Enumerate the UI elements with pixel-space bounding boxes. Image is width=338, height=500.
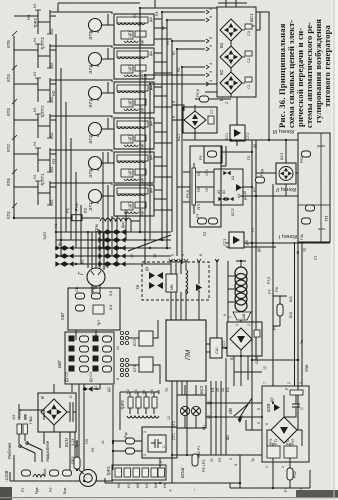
winding Рдв: [33, 475, 45, 478]
bridge В8: [271, 417, 297, 443]
wires БГ links: [129, 320, 160, 384]
wire vertical x256: [255, 140, 257, 360]
wire bus x140: [140, 8, 217, 232]
vertical riser wires from contacts to diode band: [56, 34, 81, 264]
exciter В circle: [80, 470, 97, 487]
wire vertical x273: [272, 184, 274, 386]
diode pairs on band: [55, 229, 125, 266]
bridge B3: [220, 19, 242, 41]
stabilitron СТ2: [180, 406, 189, 415]
wire vertical x237: [221, 146, 226, 166]
resistor top: [290, 390, 303, 395]
wire bus x145: [145, 75, 205, 264]
coil row under ТрР2: [127, 416, 159, 418]
winding Dtm: [100, 218, 131, 221]
diode pair А2 А3: [218, 197, 225, 201]
wire vertical x298: [297, 133, 299, 430]
wire bus x177: [177, 49, 205, 256]
wires БА internal: [177, 152, 252, 214]
fuse Всв: [63, 470, 72, 476]
wire riser x66: [65, 102, 67, 232]
bridge B1: [220, 72, 242, 94]
capacitor C1: [245, 77, 252, 82]
diode А13: [196, 284, 202, 291]
resistor P2 near x256: [256, 177, 265, 183]
chevron terminals at BS1 inputs: [206, 10, 209, 86]
resistor Р9 top: [208, 151, 217, 157]
wires БСЗ: [185, 385, 262, 428]
capacitor С: [67, 402, 76, 422]
wire БСТ feeds: [172, 99, 231, 140]
diode pair Д5: [149, 272, 155, 289]
wires ТрР2: [113, 385, 159, 470]
wires coil taps: [228, 261, 246, 322]
block БСТ outline: [183, 107, 217, 133]
coil in dashed box: [186, 270, 188, 294]
label АВ: [233, 312, 251, 320]
motor unit ЭТ4: [14, 44, 172, 79]
motor unit ЭТ5: [14, 10, 172, 45]
bridge В7: [230, 328, 252, 350]
wire band y248: [56, 247, 171, 249]
wire БС1 block stubs: [256, 140, 298, 196]
wire bus x167: [167, 20, 205, 248]
motor unit ЭТ6: [14, 148, 172, 183]
wire riser x61: [60, 68, 62, 256]
diode pair Д6: [157, 272, 163, 289]
wires across below В7: [234, 372, 262, 386]
junction dots band: [55, 231, 168, 265]
blades: [20, 443, 42, 453]
resistor top: [302, 151, 311, 157]
block БА outline: [190, 146, 221, 227]
wire konec III line: [183, 139, 298, 141]
wires БЗВ internals: [267, 395, 302, 470]
label sprinkles: [12, 31, 17, 208]
resistor near ВОШ: [192, 454, 198, 466]
resistor R1 Rtm: [72, 215, 82, 221]
diode pair А1: [223, 171, 230, 175]
inner line: [298, 133, 330, 242]
motor unit ЭТ2: [14, 114, 172, 149]
wire konec II line: [240, 195, 298, 197]
wires В7 out: [234, 350, 248, 386]
wires switch: [14, 404, 44, 481]
resistors П7 bottom: [198, 218, 207, 224]
bottom relay boxes: [267, 446, 280, 458]
bridge В4: [184, 111, 206, 129]
fuse РУ1: [22, 470, 31, 476]
wire riser x71: [70, 138, 72, 240]
terminal circles col 1: [120, 331, 128, 376]
resistors Рф: [126, 438, 135, 444]
БГ1 box: [139, 357, 153, 372]
wires БСМ: [44, 384, 75, 473]
motor unit ЭТ3: [14, 78, 172, 113]
resistor bottom: [302, 218, 311, 224]
inner box БС2: [214, 169, 243, 205]
capacitor С7: [208, 116, 214, 124]
wire vertical x252: [251, 140, 253, 430]
resistors РУ12: [17, 424, 22, 434]
riser wires to band cluster B: [103, 152, 131, 264]
wire band y256: [56, 255, 171, 257]
wires КВГ internal: [76, 286, 100, 340]
wire bus-to-bottom resistor line: [14, 217, 100, 219]
tall resistor bar Р9,8: [192, 168, 196, 205]
resistor Рб2: [287, 468, 293, 480]
resistor above БСТ: [200, 96, 209, 102]
wire band y240: [56, 239, 171, 241]
wires БФ: [113, 441, 160, 470]
diode А4: [236, 184, 242, 191]
wire input B1 pair: [150, 84, 217, 240]
block БС1 outline: [217, 7, 256, 97]
wire band y264: [60, 263, 171, 265]
wires БВГ bottom: [72, 384, 100, 470]
wire bus x162: [162, 12, 205, 240]
terminal row chevrons: [169, 259, 219, 262]
wire bus x182: [182, 67, 205, 264]
capacitor С in БФ: [151, 439, 162, 448]
БГ2 box: [139, 331, 153, 346]
stabilitron СТ1: [191, 406, 200, 415]
capacitor C2: [245, 51, 252, 56]
wire konec I line: [226, 243, 330, 247]
wires ИВ: [246, 392, 262, 430]
wire right drop x269: [256, 12, 269, 140]
wires БЗВ bottom: [230, 470, 310, 488]
capacitor C3: [245, 24, 252, 29]
wire vertical x294: [295, 242, 303, 386]
wire band y232: [56, 231, 171, 233]
wire diag band: [128, 235, 171, 251]
wire bus x172: [172, 41, 205, 232]
wire top edge stubs: [58, 0, 247, 12]
diode pair below БВГ: [83, 386, 92, 391]
wire left bus: [13, 36, 15, 218]
wire riser x56: [55, 34, 57, 248]
СШ box: [210, 338, 222, 358]
МВ box: [166, 274, 177, 292]
wire gen feeders: [88, 232, 104, 270]
capacitor В7: [254, 330, 260, 337]
resistor mid: [306, 205, 315, 211]
wires dashed box verticals: [171, 261, 217, 338]
wire riser x81: [80, 205, 82, 264]
bridge B2: [220, 46, 242, 68]
fuse: [50, 470, 59, 476]
motor unit ЭТ1: [14, 181, 172, 216]
capacitor С: [292, 395, 300, 414]
wire riser x76: [75, 172, 77, 248]
diode Д9: [274, 404, 280, 411]
wires ПМ-СШ: [206, 344, 226, 352]
wire bridge chain: [231, 41, 237, 146]
generator Г: [87, 268, 105, 286]
wire Uzv line: [252, 359, 298, 361]
bottom line: [105, 478, 240, 483]
